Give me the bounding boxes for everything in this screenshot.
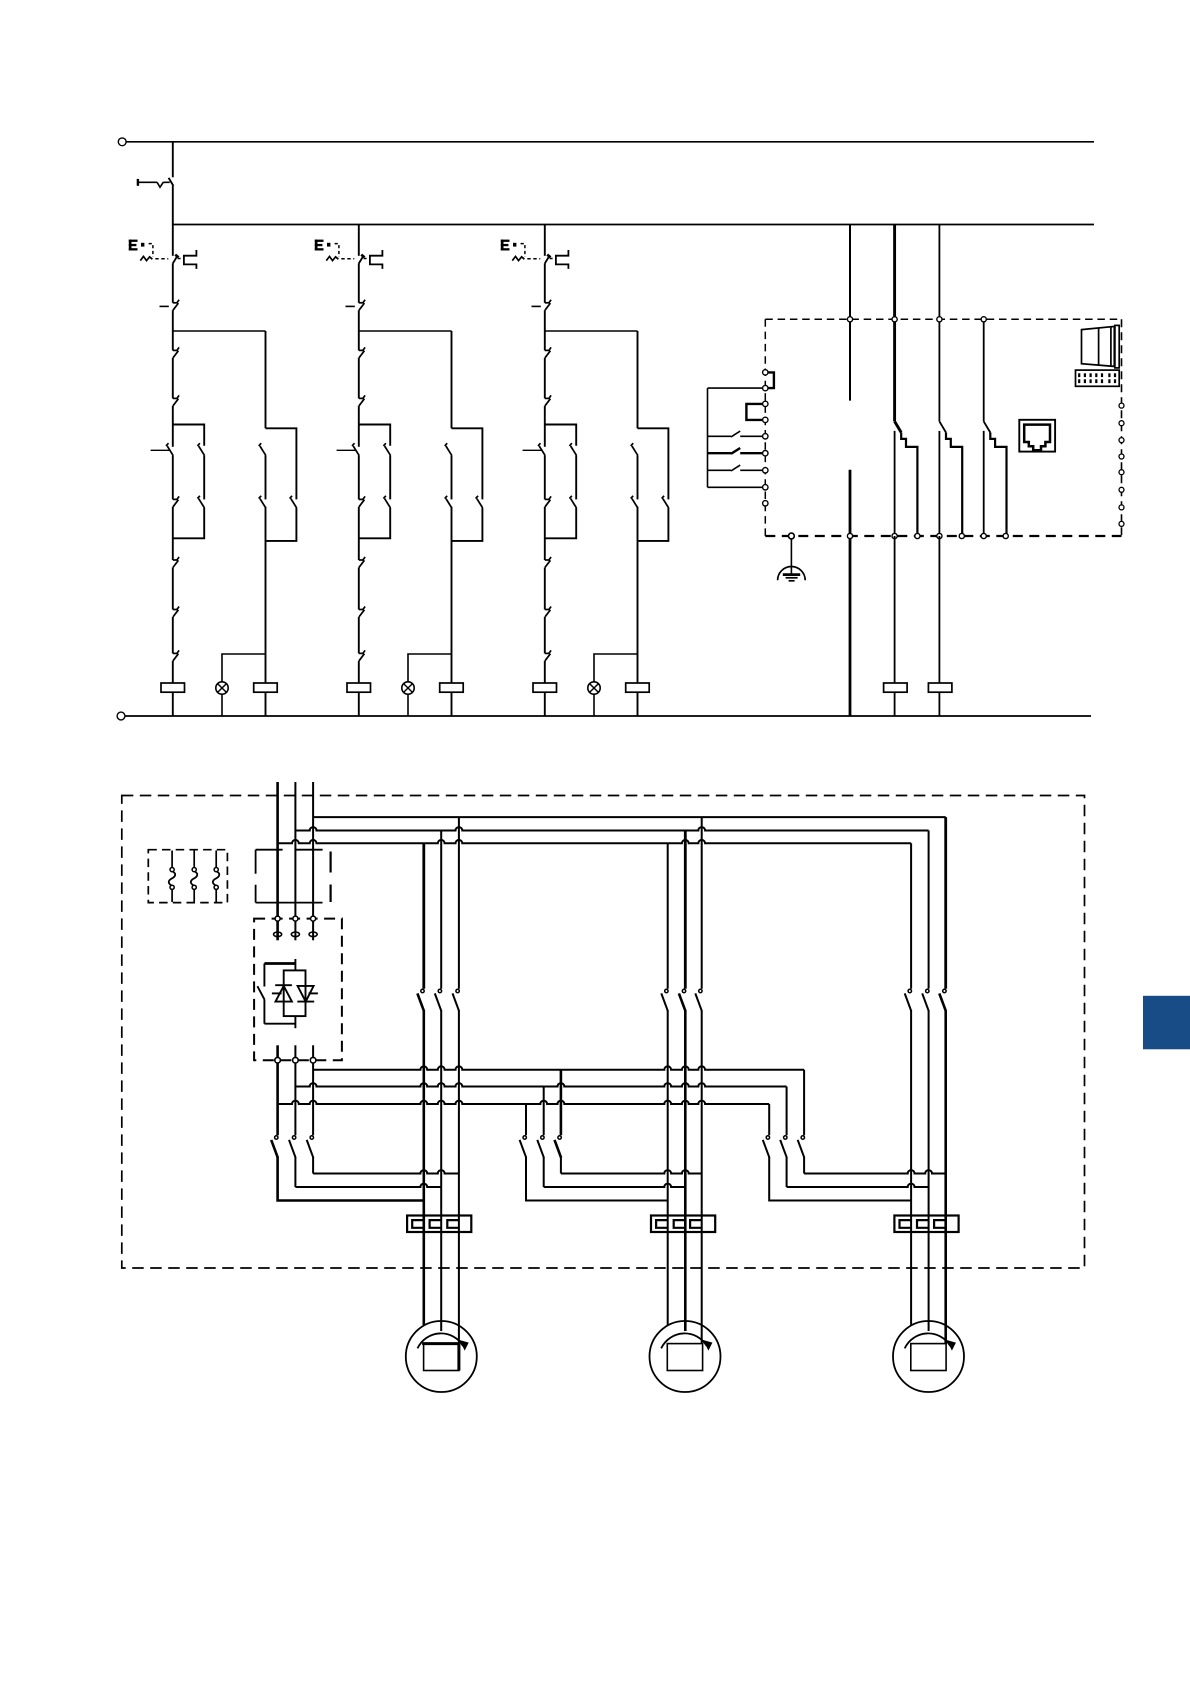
wire branch3 seg5 left	[544, 455, 546, 499]
wire branch1 aux to coil	[265, 507, 267, 683]
sensor switch B3	[708, 469, 732, 471]
contact K2k aux parallel	[477, 499, 483, 508]
wire branch1 riser to control rail	[172, 186, 174, 225]
wire supply L2 drop	[294, 782, 296, 918]
contact K3i aux	[632, 446, 638, 455]
soft starter input stub 2	[294, 921, 296, 940]
wire K2 feeder phase3	[701, 817, 703, 989]
overload trip latch bracket 1	[184, 250, 197, 269]
wire branch3 seg4	[544, 406, 546, 447]
wire lamp H3 tap	[594, 654, 638, 682]
fuse F1-1	[171, 851, 173, 868]
wire K13 output join phase2	[786, 1157, 788, 1187]
overload trip label dot 3	[513, 243, 516, 247]
wire K1 feeder phase3	[458, 817, 460, 989]
PC keyboard keys	[1078, 373, 1080, 377]
contact K2a	[359, 349, 364, 351]
wire sensor rail to I8	[708, 486, 763, 488]
disconnect switch Q0 link	[138, 181, 157, 183]
wire K1 feeder phase1	[422, 843, 425, 988]
overload trip squiggle 3	[512, 256, 524, 260]
wire relay common feed	[849, 225, 851, 401]
wire branch2 seg9 to coil	[358, 661, 360, 683]
contact K3h	[545, 652, 550, 654]
wire branch2 seg7	[358, 567, 360, 609]
contactor K11 pole 1	[275, 1136, 278, 1139]
wire bus L3 top	[313, 816, 946, 818]
overload trip contact blade 1	[173, 256, 178, 264]
node branch1 aux tap	[173, 330, 266, 332]
contact S11 manual with actuator	[167, 446, 173, 455]
wire branch3 seg1	[544, 264, 546, 303]
wire bus L2 top	[295, 827, 928, 830]
wire coil K3A to rail	[637, 692, 639, 716]
soft starter input terminal 1	[275, 916, 280, 921]
wire branch2 aux mid	[451, 455, 453, 499]
contact K3d	[545, 498, 550, 500]
fuse F1-2	[193, 851, 195, 868]
overload trip contact blade 3	[545, 256, 550, 264]
soft starter output terminal 1	[275, 1057, 281, 1063]
soft starter output terminal 2	[293, 1057, 299, 1063]
contactor K3 pole 3	[943, 989, 946, 992]
soft starter input terminal 2	[293, 916, 298, 921]
wire F11 lead phase1	[422, 1011, 425, 1326]
contact K1g	[173, 609, 178, 611]
wire branch1 aux vertical	[265, 331, 267, 428]
RJ45 port icon	[1019, 420, 1055, 452]
wire branch2 aux to coil	[451, 507, 453, 683]
controller U1 dashed enclosure	[765, 318, 1121, 320]
overload trip dashes to latch 2	[364, 258, 370, 260]
wire K11 output join phase2	[294, 1157, 296, 1187]
motor M1 rotation arrow	[418, 1333, 464, 1348]
wire branch3 seg8	[544, 617, 546, 654]
contact K1c parallel	[199, 446, 205, 455]
contactor K13 pole 2	[784, 1136, 787, 1139]
terminal controller input I1	[763, 370, 768, 375]
wire K12 tap phase2	[543, 1087, 545, 1136]
wire branch3 seg6	[544, 507, 546, 560]
wire K12 output join phase1	[526, 1157, 668, 1201]
node L+ supply terminal	[118, 138, 126, 146]
terminal Q2 no	[959, 533, 964, 538]
pilot lamp H3	[588, 682, 600, 694]
wire branch3 aux bracket bottom	[638, 508, 669, 541]
terminal controller comm 1	[1119, 403, 1124, 408]
contact K3e parallel	[571, 499, 577, 508]
wire F11 lead phase2	[440, 1011, 442, 1332]
wire branch1 seg8	[172, 617, 174, 654]
terminal Q3 nc	[981, 533, 986, 538]
wire K3 feeder phase1	[910, 843, 912, 988]
wire F13 lead phase3	[944, 1011, 947, 1345]
wire coil K11 drop	[938, 536, 940, 683]
contact K1a	[173, 349, 178, 351]
wire K12 output join phase2	[543, 1157, 545, 1187]
overload trip contact blade 2	[359, 256, 364, 264]
thyristor SCR1 (up)	[276, 986, 292, 1002]
contact K2c parallel	[385, 446, 391, 455]
coil K3M	[533, 683, 557, 692]
wire K3 feeder phase2	[928, 831, 930, 989]
wire branch1 seg4	[172, 406, 174, 447]
wire branch2 above trip contact	[358, 225, 360, 256]
wire branch1 seg2	[172, 310, 174, 350]
wire branch3 above trip contact	[544, 225, 546, 256]
wire branch3 parallel bracket top	[545, 425, 576, 446]
soft starter G1 dashed enclosure	[254, 919, 342, 1061]
pilot lamp H2	[402, 682, 414, 694]
contactor K11 pole 3	[310, 1136, 313, 1139]
node L- return terminal	[117, 712, 125, 720]
wire branch1 parallel bracket top	[173, 425, 204, 446]
terminal Q1 common	[892, 317, 897, 322]
wire top supply rail L1	[126, 141, 1094, 143]
contactor K13 pole 1	[766, 1136, 769, 1139]
contact K1e parallel	[199, 499, 205, 508]
contact K2b	[359, 397, 364, 399]
coil K3A	[626, 683, 650, 692]
motor M2 rotation arrow	[661, 1333, 707, 1348]
terminal relay feed top	[847, 317, 852, 322]
fuse F1-3	[215, 851, 217, 868]
overload trip dashes to latch 1	[178, 258, 184, 260]
terminal controller comm 2	[1119, 421, 1124, 426]
motor M1 body	[406, 1321, 477, 1392]
terminal controller comm 8	[1119, 521, 1124, 526]
contactor K1 pole 1	[421, 989, 424, 992]
overload trip dashed link corner 1	[149, 244, 153, 257]
wire K11 output join phase1	[278, 1157, 424, 1201]
wire K13 output join phase3	[803, 1157, 805, 1174]
wire F13 lead phase1	[910, 1011, 912, 1326]
overload trip dashed link corner 2	[335, 244, 339, 257]
wire F13 lead phase2	[928, 1011, 930, 1332]
terminal controller comm 6	[1119, 487, 1124, 492]
wire soft-start bus c	[276, 1063, 279, 1136]
sensor switch B1	[708, 435, 732, 437]
wire branch1 seg5 left	[172, 455, 174, 499]
wire bus L1 top	[278, 840, 912, 843]
contact K1h	[173, 652, 178, 654]
overload trip squiggle 2	[326, 256, 338, 260]
contact S1 (start pushbutton)	[173, 302, 178, 304]
contactor K3 pole 2	[926, 989, 929, 992]
terminal controller input I2	[763, 385, 768, 390]
wire branch2 seg4	[358, 406, 360, 447]
sensor switch B2	[708, 452, 732, 454]
contactor K2 pole 1	[665, 989, 668, 992]
wire K13 output join phase1	[769, 1157, 911, 1201]
contact K1i aux	[260, 446, 266, 455]
wire K2 feeder phase1	[667, 843, 669, 988]
wire branch3 seg3	[544, 358, 546, 399]
overload trip label dot 2	[327, 243, 330, 247]
wire branch2 aux bracket bottom	[452, 508, 483, 541]
wire K12 tap phase3	[560, 1070, 563, 1136]
motor M2 terminal box	[667, 1344, 702, 1371]
wire branch2 seg1	[358, 264, 360, 303]
wire F11 lead phase3	[458, 1011, 460, 1345]
contact K3j aux	[632, 499, 638, 508]
wire branch2 aux vertical	[451, 331, 453, 428]
contact K2j aux	[446, 499, 452, 508]
contactor K2 pole 3	[699, 989, 702, 992]
fuse block F1 dashed box	[148, 850, 227, 903]
node branch2 aux tap	[359, 330, 452, 332]
terminal controller input I4	[763, 417, 768, 422]
thyristor module body	[284, 970, 306, 1016]
soft starter input plug terminal 1	[274, 932, 282, 937]
terminal controller input I7	[763, 468, 768, 473]
soft starter input terminal 3	[311, 916, 316, 921]
starter panel dashed enclosure	[122, 796, 1085, 1269]
wire coil K2A to rail	[451, 692, 453, 716]
bypass contact blade	[257, 986, 264, 999]
contact K2i aux	[446, 446, 452, 455]
overload trip label E3	[501, 240, 510, 251]
thyristor module out wire	[294, 1016, 296, 1028]
wire branch1 seg9 to coil	[172, 661, 174, 683]
contact K3b	[545, 397, 550, 399]
terminal controller comm 4	[1119, 454, 1124, 459]
overload trip dashed link 1	[155, 258, 168, 260]
programming PC icon	[1082, 326, 1115, 366]
contact K3k aux parallel	[663, 499, 669, 508]
thyristor bypass branch	[264, 962, 295, 965]
wire F12 lead phase2	[684, 1011, 687, 1332]
wire K3 feeder phase3	[944, 817, 947, 989]
terminal Q3 common	[981, 317, 986, 322]
soft starter output stub 1	[276, 1045, 279, 1057]
wire branch3 aux bracket top	[638, 428, 669, 499]
relay output contact Q1 changeover	[893, 225, 896, 422]
wire branch1 seg5 right	[203, 455, 205, 499]
disconnect switch Q0 actuator tick	[137, 179, 139, 186]
coil K2M	[347, 683, 371, 692]
coil K11	[928, 683, 952, 692]
wire coil K11 to rail	[938, 692, 940, 716]
overload trip dashed link corner 3	[521, 244, 525, 257]
terminal Q2 common	[937, 317, 942, 322]
wire coil K1A to rail	[265, 692, 267, 716]
wire branch1 seg1	[172, 264, 174, 303]
overload trip latch bracket 3	[556, 250, 569, 269]
wire lamp H2 to rail	[407, 694, 409, 716]
contact K1j aux	[260, 499, 266, 508]
wire branch2 seg3	[358, 358, 360, 399]
wire F12 lead phase1	[667, 1011, 669, 1326]
overload relay F11	[407, 1216, 471, 1233]
wire branch1 parallel bracket bottom	[173, 508, 204, 538]
wire coil K2M to rail	[358, 692, 360, 716]
contact K1k aux parallel	[291, 499, 297, 508]
wire relay common feed lower	[849, 470, 852, 716]
wire branch2 seg8	[358, 617, 360, 654]
overload trip label dot 1	[141, 243, 144, 247]
contact K1b	[173, 397, 178, 399]
terminal controller input I8	[763, 485, 768, 490]
wire branch1 seg7	[172, 567, 174, 609]
disconnect switch Q0 thermal squiggle	[157, 182, 170, 187]
wire branch3 seg9 to coil	[544, 661, 546, 683]
overload trip latch bracket 2	[370, 250, 383, 269]
motor M3 rotation arrow	[905, 1333, 951, 1348]
wire K11 output join phase3	[312, 1157, 314, 1174]
wire K12 output join phase3	[560, 1157, 562, 1174]
terminal relay feed bottom	[847, 533, 852, 538]
contact K3c parallel	[571, 446, 577, 455]
soft starter output terminal 3	[310, 1057, 316, 1063]
contactor K13 pole 3	[801, 1136, 804, 1139]
overload trip dashed link 2	[341, 258, 354, 260]
wire branch2 seg2	[358, 310, 360, 350]
relay output contact Q2 changeover	[938, 225, 940, 422]
wire coil K1M to rail	[172, 692, 174, 716]
wire branch3 seg5 right	[575, 455, 577, 499]
terminal controller comm 7	[1119, 505, 1124, 510]
contact K2f	[359, 559, 364, 561]
contact S31 manual with actuator	[539, 446, 545, 455]
jumper input I3-I4	[746, 404, 762, 420]
ground protective earth symbol	[778, 566, 806, 580]
wire K12 tap phase1	[525, 1104, 527, 1135]
contact K3g	[545, 609, 550, 611]
wire branch1 seg3	[172, 358, 174, 399]
soft starter input stub 3	[312, 921, 314, 940]
wire branch1 riser from L1 rail	[172, 142, 174, 178]
wire branch2 parallel bracket top	[359, 425, 390, 446]
terminal Q3 no	[1003, 533, 1008, 538]
overload trip label E2	[315, 240, 324, 251]
motor M2 body	[650, 1321, 721, 1392]
contactor K2 pole 2	[682, 989, 685, 992]
contact S2 (start pushbutton)	[359, 302, 364, 304]
contact K2g	[359, 609, 364, 611]
soft starter input stub 1	[276, 921, 279, 940]
overload trip label E1	[129, 240, 138, 251]
thyristor module feed wire	[294, 959, 296, 970]
wire soft-start bus a	[312, 1063, 314, 1136]
wire branch2 seg6	[358, 507, 360, 560]
wire supply L1 drop	[276, 782, 279, 918]
wire branch2 aux bracket top	[452, 428, 483, 499]
coil K1A	[254, 683, 278, 692]
main switch Q11 dashed box	[256, 849, 331, 851]
contact K3f	[545, 559, 550, 561]
wire K2 feeder phase2	[684, 831, 687, 989]
contact K2d	[359, 498, 364, 500]
contactor K12 pole 3	[558, 1136, 561, 1139]
soft starter input plug terminal 3	[309, 932, 317, 937]
coil K10	[884, 683, 908, 692]
wire branch3 seg2	[544, 310, 546, 350]
wire branch2 parallel bracket bottom	[359, 508, 390, 538]
motor M1 terminal box	[424, 1344, 459, 1371]
wire lamp H1 to rail	[221, 694, 223, 716]
wire bottom return rail N	[125, 715, 1091, 717]
motor M3 terminal box	[911, 1344, 946, 1371]
terminal controller PE	[789, 533, 795, 539]
bypass branch lower	[263, 1000, 265, 1024]
wire branch1 above trip contact	[172, 225, 174, 256]
contact S3 (start pushbutton)	[545, 302, 550, 304]
wire coil K3M to rail	[544, 692, 546, 716]
disconnect switch Q0 blade	[169, 178, 174, 186]
terminal Q2 nc	[937, 533, 942, 538]
wire supply L3 drop	[312, 782, 314, 918]
contactor K11 pole 2	[292, 1136, 295, 1139]
wire coil K10 drop	[894, 536, 896, 683]
overload relay F13	[894, 1216, 958, 1233]
wire sensor rail to I2	[708, 387, 763, 389]
overload trip squiggle 1	[140, 256, 152, 260]
overload trip dashes to latch 3	[550, 258, 556, 260]
contact K2e parallel	[385, 499, 391, 508]
terminal controller input I6	[763, 451, 768, 456]
contact S21 manual with actuator	[353, 446, 359, 455]
wire branch1 aux bracket bottom	[266, 508, 297, 541]
wire lamp H3 to rail	[593, 694, 595, 716]
contactor K1 pole 3	[456, 989, 459, 992]
terminal controller input I9	[763, 501, 768, 506]
node branch3 aux tap	[545, 330, 638, 332]
overload trip dashed link 3	[527, 258, 540, 260]
wire control rail	[173, 224, 1094, 226]
wire branch1 aux bracket top	[266, 428, 297, 499]
wire branch1 seg6	[172, 507, 174, 560]
soft starter output stub 2	[294, 1045, 296, 1057]
wire lamp H2 tap	[408, 654, 452, 682]
relay output contact Q3 changeover	[983, 319, 985, 421]
wire branch1 aux mid	[265, 455, 267, 499]
wire sensor rail	[707, 388, 709, 487]
terminal controller comm 5	[1119, 470, 1124, 475]
wire branch3 aux to coil	[637, 507, 639, 683]
coil K1M	[161, 683, 185, 692]
contact K1d	[173, 498, 178, 500]
contactor K12 pole 1	[523, 1136, 526, 1139]
terminal Q1 nc	[892, 533, 897, 538]
wire K1 feeder phase2	[440, 831, 442, 989]
thyristor SCR2 (down)	[298, 986, 314, 1002]
wire branch2 seg5 left	[358, 455, 360, 499]
contact K1f	[173, 559, 178, 561]
contact K3a	[545, 349, 550, 351]
wire coil K10 to rail	[894, 692, 896, 716]
wire PE drop	[790, 539, 792, 574]
coil K2A	[440, 683, 464, 692]
overload relay F12	[651, 1216, 715, 1233]
contact K2h	[359, 652, 364, 654]
wire branch3 aux vertical	[637, 331, 639, 428]
contactor K12 pole 2	[541, 1136, 544, 1139]
terminal controller comm 3	[1119, 438, 1124, 443]
terminal controller input I3	[763, 401, 768, 406]
wire branch2 seg5 right	[389, 455, 391, 499]
wire soft-start bus b	[294, 1063, 296, 1136]
jumper input I1-I2	[768, 372, 774, 388]
wire F12 lead phase3	[701, 1011, 703, 1345]
contactor K1 pole 2	[438, 989, 441, 992]
wire lamp H1 tap	[222, 654, 266, 682]
page tab marker	[1143, 996, 1190, 1050]
terminal Q1 no	[915, 533, 920, 538]
contactor K3 pole 1	[908, 989, 911, 992]
motor M3 body	[893, 1321, 964, 1392]
pilot lamp H1	[216, 682, 228, 694]
